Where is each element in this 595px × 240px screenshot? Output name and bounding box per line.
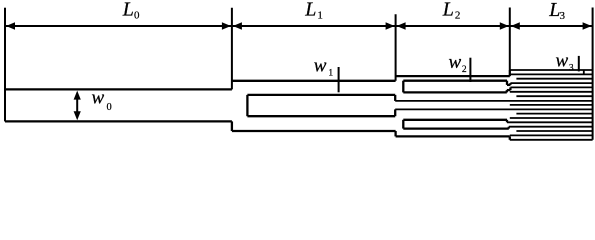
svg-text:0: 0 [107, 102, 112, 113]
wire: L1 slot left edge [246, 95, 248, 116]
wire: L2 section top edge [396, 75, 510, 77]
wire: w0 strip top edge [5, 88, 232, 90]
wire: L3 finger line k1 [510, 73, 593, 75]
wire: L2 slot A neck upper step [506, 81, 508, 85]
wire: L2 slot A neck upper stub step to k3 [509, 83, 511, 85]
wire: channel line from L1 slot running to right edge (k7) [395, 100, 592, 102]
wire: L3 finger line k5 [510, 91, 593, 93]
svg-text:w: w [314, 56, 327, 77]
svg-text:1: 1 [328, 69, 333, 79]
wire: L2 slot B left edge [402, 120, 404, 129]
wire: dimension line span L2 [396, 25, 510, 27]
wire: L3 finger line k3 [510, 82, 592, 84]
arrowhead right end of L1 dimension [386, 22, 395, 29]
wire: L1 slot right neck upper step [394, 95, 396, 101]
svg-text:2: 2 [455, 10, 461, 22]
svg-text:L: L [442, 0, 454, 21]
wire: L2 slot A top edge [403, 80, 507, 82]
svg-text:1: 1 [317, 10, 323, 22]
wire: L3 finger line k8 [510, 104, 593, 106]
wire: L2 slot B top edge [403, 119, 507, 121]
wire: extension tick right edge (L3 end), also right edge of structure [592, 8, 594, 140]
wire: extension tick at L2/L3 boundary, continues to L2 top [509, 8, 511, 77]
wire: L1 slot bottom edge [247, 115, 395, 117]
wire: step at L1/L2 from L1 bottom to L2 bottom [394, 131, 396, 136]
svg-text:w: w [556, 50, 569, 71]
svg-text:w: w [92, 88, 105, 109]
wire: L2 slot A left edge [402, 81, 404, 93]
wire: L2 slot B neck upper step to k12 [506, 120, 508, 123]
wire: extension tick left edge (L0 start), also left edge of structure [4, 8, 6, 122]
wire: channel line from L1 slot running to right edge (k9) [395, 108, 592, 110]
wire: L3 finger line k4 [510, 86, 592, 88]
svg-text:2: 2 [462, 65, 467, 75]
wire: L1 section bottom edge [232, 130, 396, 132]
wire: step at L2/L3 from L2 bottom to L3 bottom [509, 136, 511, 139]
arrowhead left end of L1 dimension [233, 22, 242, 29]
wire: L3 finger line k10 [516, 113, 592, 115]
svg-text:w: w [449, 52, 462, 73]
wire: L3 finger line k12 [507, 121, 593, 123]
double-headed arrow for w0 width [76, 94, 78, 117]
wire: L3 finger line k0 [510, 69, 593, 71]
wire: L3 finger line k16 [510, 139, 593, 141]
svg-text:L: L [122, 0, 134, 21]
svg-text:0: 0 [134, 10, 140, 22]
wire: L1 section top edge [232, 80, 396, 82]
svg-text:3: 3 [560, 10, 566, 22]
wire: L2 slot A neck upper stub [507, 84, 510, 86]
wire: L2 slot B neck lower step to k13 [508, 127, 510, 129]
wire: dimension line span L0 [5, 25, 232, 27]
wire: L2 slot B bottom edge [403, 127, 509, 129]
wire: L2 slot A neck lower stub step to k4 [509, 87, 511, 90]
wire: L3 finger line k6 [516, 95, 592, 97]
wire: w2 measurement tick [469, 58, 471, 82]
wire: step at L2/L3 from L3 top down to L2 top [509, 70, 511, 76]
wire: L3 finger line k15 continuing from L2 bottom [510, 134, 593, 136]
svg-text:3: 3 [569, 63, 574, 73]
wire: L3 finger line k14 [516, 130, 592, 132]
wire: w3 measurement tick [578, 56, 580, 72]
wire: closure vertical between L3 lines k0 and k1 [583, 70, 585, 74]
wire: L3 finger line k2 [516, 78, 592, 80]
wire: L3 finger line k13 [509, 126, 593, 128]
arrowhead left end of L3 dimension [511, 22, 520, 29]
wire: L3 finger line k11 [510, 117, 593, 119]
svg-text:L: L [304, 0, 316, 21]
wire: L2 slot A neck lower stub [507, 89, 511, 91]
wire: step down at x=232 from strip bottom to L1 bottom [231, 121, 233, 131]
wire: dimension line span L3 [510, 25, 593, 27]
wire: L2 slot A neck lower step [506, 90, 508, 92]
wire: extension tick at L1/L2 boundary, continues to L2 top [395, 14, 397, 81]
arrowhead right end of L2 dimension [500, 22, 509, 29]
wire: L1 slot right neck lower step [394, 109, 396, 116]
wire: L1 slot top edge [247, 94, 395, 96]
arrowhead left end of L2 dimension [397, 22, 406, 29]
arrowhead right end of L3 dimension [583, 22, 592, 29]
wire: w1 measurement tick [338, 67, 340, 92]
wire: L2 slot A bottom edge [403, 91, 507, 93]
wire: L2 section bottom edge [396, 135, 510, 137]
arrowhead right end of L0 dimension [222, 22, 231, 29]
wire: extension tick at L0/L1 boundary, continues as section step edge [231, 8, 233, 90]
wire: w0 strip bottom edge [5, 120, 232, 122]
wire: dimension line span L1 [232, 25, 396, 27]
arrowhead left end of L0 dimension [6, 22, 15, 29]
